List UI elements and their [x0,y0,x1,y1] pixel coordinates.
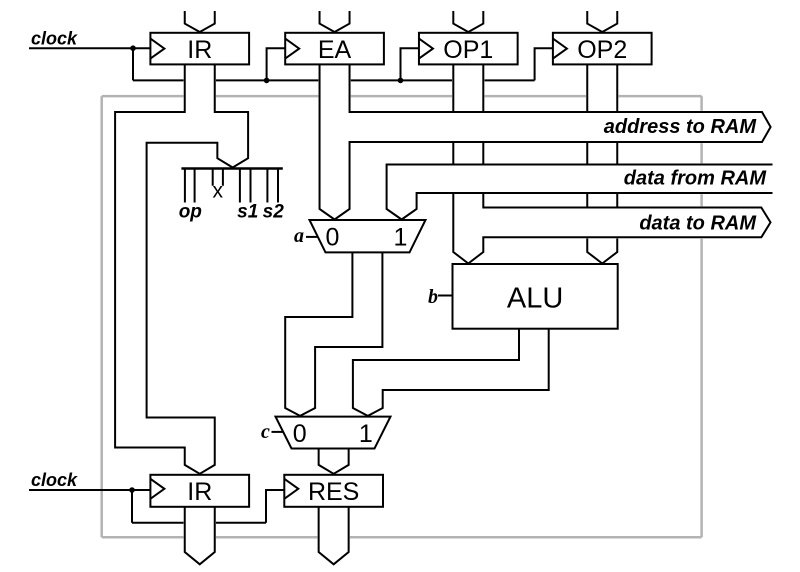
wire clock distribution bus [133,79,535,81]
bus input funnel IR [185,11,215,32]
frame gray bottom edge [102,536,702,539]
svg-text:IR: IR [187,478,212,506]
splitter field ticks op [185,170,195,203]
junction dot clock-EA [264,78,270,84]
register EA [285,33,384,65]
register RES [284,475,383,507]
svg-text:s2: s2 [263,202,285,223]
register OP2 [553,33,652,65]
mux c body [276,417,391,449]
svg-text:0: 0 [326,223,340,251]
bus RES output [319,507,349,565]
bus OP1 output left line to ALU [453,64,468,263]
wire clock stub EA [267,48,286,80]
junction dot clock-IR bottom [129,487,135,493]
svg-text:x: x [213,179,224,202]
junction dot clock-IR [130,45,136,51]
bus IR output right branch to field splitter [215,64,248,167]
bus EA output right line and address-to-RAM band [335,64,771,219]
bus OP2 output to ALU [587,64,617,263]
svg-text:a: a [294,225,304,247]
svg-text:c: c [261,421,270,443]
bus input funnel EA [320,11,350,32]
svg-text:0: 0 [293,420,307,448]
frame gray top edge [102,95,702,98]
bus IR bottom output [185,507,215,565]
svg-text:op: op [179,202,202,223]
wire clock stub OP2 [535,48,553,80]
wire clock top horizontal [29,47,150,49]
wire clock stub OP1 [401,48,419,80]
data-from-RAM band top edge [387,165,773,220]
svg-text:data from RAM: data from RAM [624,168,768,190]
splitter field ticks x [213,170,223,186]
bus input funnel OP2 [587,11,617,32]
svg-text:data to RAM: data to RAM [639,213,757,235]
bus EA output left line to mux a [320,64,335,219]
mux a body [310,220,426,252]
svg-text:OP1: OP1 [443,36,493,64]
svg-text:RES: RES [308,478,359,506]
svg-text:s1: s1 [237,202,258,223]
splitter field ticks s2 [267,170,278,203]
wire c select dash [272,431,283,433]
bus OP1 output right line and data-to-RAM band [468,64,770,263]
splitter field ticks s1 [240,170,251,203]
wire clock drop to bus [132,48,134,80]
svg-text:EA: EA [318,36,352,64]
svg-text:clock: clock [31,470,78,490]
splitter bar [181,167,282,170]
svg-text:ALU: ALU [507,283,563,315]
wire a select dash [306,236,318,238]
junction dot clock-OP1 [398,78,404,84]
bus IR output left branch to bottom IR [115,64,200,473]
data-from-RAM band bottom edge [402,193,773,220]
register IR bottom [150,475,249,507]
bus mux a output to mux c input 0 [285,252,382,416]
svg-text:address to RAM: address to RAM [604,116,758,138]
register OP1 [419,33,518,65]
frame gray right edge [700,96,703,537]
frame gray left edge [100,96,103,537]
bus input funnel OP1 [453,11,483,32]
bus ALU output to mux c input 1 [353,329,549,416]
svg-text:b: b [428,286,438,308]
register IR top [150,33,249,65]
svg-text:1: 1 [394,223,408,251]
wire clock bottom routing to RES [132,490,284,523]
wire clock bottom horizontal [29,489,150,491]
svg-text:OP2: OP2 [577,36,627,64]
ALU U1 [453,264,618,329]
wire b select dash [438,295,453,297]
bus inner boundary IR branches [147,143,233,474]
bus mux c output to RES [319,448,349,473]
svg-text:clock: clock [31,29,78,49]
svg-text:IR: IR [187,36,212,64]
svg-text:1: 1 [359,420,373,448]
